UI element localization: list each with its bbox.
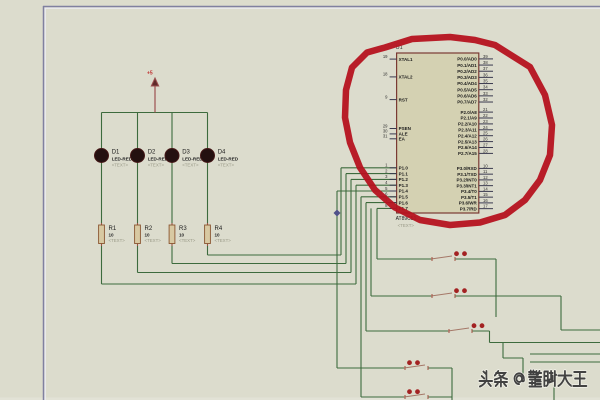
svg-text:36: 36 [483, 72, 488, 77]
svg-text:10: 10 [483, 163, 488, 168]
svg-text:P1.3: P1.3 [399, 183, 409, 188]
svg-text:P1.6: P1.6 [399, 200, 409, 205]
svg-text:38: 38 [483, 60, 488, 65]
svg-text:P2.5/A13: P2.5/A13 [458, 139, 477, 144]
svg-text:27: 27 [483, 143, 488, 148]
svg-text:P0.2/AD2: P0.2/AD2 [457, 69, 477, 74]
svg-text:D3: D3 [182, 150, 190, 156]
svg-text:R1: R1 [109, 226, 117, 232]
svg-text:P3.5/T1: P3.5/T1 [461, 195, 477, 200]
svg-text:28: 28 [483, 148, 488, 153]
svg-text:LED-RED: LED-RED [112, 157, 133, 162]
svg-text:<TEXT>: <TEXT> [398, 223, 415, 228]
svg-text:P2.4/A12: P2.4/A12 [458, 133, 477, 138]
svg-text:P2.7/A15: P2.7/A15 [458, 151, 477, 156]
svg-text:LED-RED: LED-RED [218, 157, 239, 162]
svg-text:24: 24 [483, 125, 488, 130]
svg-text:15: 15 [483, 192, 488, 197]
svg-text:P1.5: P1.5 [399, 195, 409, 200]
svg-text:P1.0: P1.0 [399, 166, 409, 171]
svg-text:R4: R4 [215, 226, 223, 232]
svg-text:19: 19 [383, 54, 388, 59]
svg-text:XTAL1: XTAL1 [399, 57, 413, 62]
svg-text:EA: EA [399, 137, 406, 142]
svg-text:P1.1: P1.1 [399, 171, 409, 176]
svg-text:10: 10 [215, 233, 221, 238]
svg-text:R3: R3 [179, 226, 187, 232]
svg-text:12: 12 [483, 175, 488, 180]
svg-text:22: 22 [483, 113, 488, 118]
svg-text:P3.2/INT0: P3.2/INT0 [457, 178, 478, 183]
svg-text:D1: D1 [112, 150, 120, 156]
svg-text:16: 16 [483, 198, 488, 203]
svg-text:P2.3/A11: P2.3/A11 [458, 128, 477, 133]
svg-text:32: 32 [483, 97, 488, 102]
svg-text:P0.7/AD7: P0.7/AD7 [457, 100, 477, 105]
svg-text:37: 37 [483, 66, 488, 71]
svg-text:<TEXT>: <TEXT> [145, 238, 162, 243]
svg-text:13: 13 [483, 181, 488, 186]
svg-text:P0.1/AD1: P0.1/AD1 [457, 63, 477, 68]
svg-text:P3.3/INT1: P3.3/INT1 [457, 183, 478, 188]
svg-text:17: 17 [483, 204, 488, 209]
svg-text:P1.4: P1.4 [399, 189, 409, 194]
svg-text:P0.0/AD0: P0.0/AD0 [457, 57, 477, 62]
svg-text:<TEXT>: <TEXT> [179, 238, 196, 243]
svg-text:P3.1/TXD: P3.1/TXD [457, 172, 477, 177]
svg-text:P2.1/A9: P2.1/A9 [461, 116, 478, 121]
svg-text:P2.2/A10: P2.2/A10 [458, 122, 477, 127]
svg-text:D4: D4 [218, 150, 226, 156]
svg-text:P3.7/RD: P3.7/RD [460, 206, 478, 211]
svg-text:P0.4/AD4: P0.4/AD4 [457, 81, 477, 86]
svg-text:<TEXT>: <TEXT> [182, 163, 199, 168]
svg-text:LED-RED: LED-RED [182, 157, 203, 162]
svg-text:PSEN: PSEN [399, 126, 411, 131]
svg-text:P2.6/A14: P2.6/A14 [458, 145, 477, 150]
svg-text:<TEXT>: <TEXT> [148, 163, 165, 168]
svg-text:11: 11 [483, 169, 488, 174]
svg-text:34: 34 [483, 85, 488, 90]
svg-text:P1.2: P1.2 [399, 177, 409, 182]
svg-text:<TEXT>: <TEXT> [218, 163, 235, 168]
svg-text:XTAL2: XTAL2 [399, 75, 413, 80]
svg-text:25: 25 [483, 131, 488, 136]
svg-text:D2: D2 [148, 150, 156, 156]
svg-text:29: 29 [383, 123, 388, 128]
svg-text:10: 10 [109, 233, 115, 238]
svg-text:10: 10 [145, 233, 151, 238]
svg-text:RST: RST [399, 97, 408, 102]
svg-text:<TEXT>: <TEXT> [109, 238, 126, 243]
svg-text:<TEXT>: <TEXT> [215, 238, 232, 243]
svg-text:+5: +5 [147, 71, 153, 77]
svg-text:P0.6/AD6: P0.6/AD6 [457, 94, 477, 99]
svg-text:35: 35 [483, 79, 488, 84]
svg-text:R2: R2 [145, 226, 153, 232]
svg-text:10: 10 [179, 233, 185, 238]
svg-text:18: 18 [383, 72, 388, 77]
svg-text:P3.0/RXD: P3.0/RXD [457, 166, 478, 171]
svg-text:P0.5/AD5: P0.5/AD5 [457, 87, 477, 92]
svg-text:23: 23 [483, 119, 488, 124]
svg-text:P3.6/WR: P3.6/WR [459, 201, 478, 206]
svg-text:P2.0/A8: P2.0/A8 [461, 110, 478, 115]
svg-text:33: 33 [483, 91, 488, 96]
svg-text:26: 26 [483, 137, 488, 142]
svg-text:P3.4/T0: P3.4/T0 [461, 189, 477, 194]
svg-text:31: 31 [383, 134, 388, 139]
svg-text:14: 14 [483, 186, 488, 191]
svg-text:21: 21 [483, 107, 488, 112]
svg-text:39: 39 [483, 54, 488, 59]
svg-text:P0.3/AD3: P0.3/AD3 [457, 75, 477, 80]
svg-text:<TEXT>: <TEXT> [112, 163, 129, 168]
